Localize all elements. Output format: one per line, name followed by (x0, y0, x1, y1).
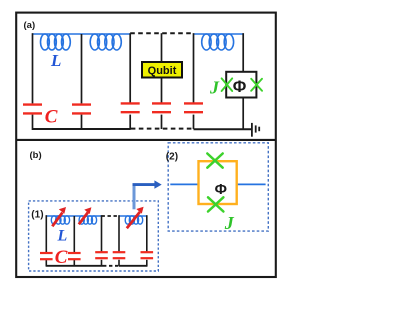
wire: mini top rail blue right (119, 215, 147, 217)
wire: vertical 3 (dashed-box left edge) (129, 33, 131, 129)
svg-text:(1): (1) (31, 210, 43, 221)
qubit dashed box bottom edge (131, 128, 194, 130)
SQUID loop (2) orange (199, 161, 237, 204)
dotted box (1) (29, 201, 159, 271)
outer frame (16, 13, 276, 277)
junction X bottom (2) (208, 197, 223, 211)
dashed box (2) (168, 143, 268, 231)
ground (252, 123, 259, 137)
mini capacitor 1 (40, 253, 53, 259)
wire: mini top rail blue left (46, 215, 101, 217)
wire: mini bottom rail right (119, 265, 147, 267)
mini inductor 2 (79, 216, 97, 224)
mini qubit dashed bottom (103, 265, 119, 267)
wire: vertical 5 (dashed-box right edge) (193, 33, 195, 129)
tuning arrow 2 (79, 207, 92, 224)
wire: mini vertical 2 (73, 216, 75, 266)
wire: SQUID branch vertical (242, 33, 244, 130)
wire: bottom rail right segment to ground (194, 128, 252, 130)
wire: mini vertical 4 (118, 215, 120, 266)
tuning arrow 3 (127, 207, 144, 229)
wire: vertical 2 (81, 34, 83, 129)
svg-text:(2): (2) (166, 152, 178, 163)
SQUID loop box U1 (226, 72, 256, 98)
mini qubit dashed top (102, 215, 120, 217)
svg-text:(a): (a) (24, 20, 36, 31)
inductor L2 (90, 34, 121, 50)
capacitor C5 (184, 103, 203, 112)
inductor L1 (41, 34, 71, 50)
svg-text:Qubit: Qubit (148, 65, 177, 77)
wire: mini vertical 1 (45, 215, 47, 266)
mini capacitor 4 (113, 252, 126, 258)
mini capacitor 3 (95, 252, 108, 258)
qubit dashed box top edge (130, 32, 193, 34)
junction X right (251, 79, 262, 91)
wire: bottom rail left segment (33, 128, 131, 130)
wire: qubit middle vertical (161, 33, 163, 129)
elbow arrow horizontal segment with head (133, 180, 162, 188)
svg-text:J: J (209, 78, 220, 98)
wire: top rail left blue segment (33, 33, 131, 35)
wire: left vertical (32, 33, 34, 130)
capacitor C1 (23, 105, 42, 114)
wire: mini vertical 5 (146, 215, 148, 266)
tuning arrow 1 (52, 207, 66, 226)
wire: mini bottom rail left (46, 265, 103, 267)
svg-text:J: J (224, 213, 235, 233)
wire: mini vertical 3 (101, 215, 103, 266)
capacitor C2 (72, 105, 91, 114)
svg-text:Φ: Φ (233, 78, 247, 96)
wire: top rail right blue segment (194, 33, 244, 35)
mini capacitor 2 (68, 253, 81, 259)
capacitor C4 (152, 103, 171, 112)
svg-text:C: C (45, 106, 58, 127)
capacitor C3 (121, 103, 140, 112)
Qubit label box (142, 62, 182, 78)
wire: lead left of SQUID (2) (170, 183, 198, 185)
elbow arrow vertical segment (133, 185, 136, 210)
svg-text:L: L (57, 228, 68, 245)
mini inductor 3 (125, 216, 142, 224)
svg-text:Φ: Φ (215, 181, 227, 198)
junction X top (2) (207, 154, 222, 168)
wire: lead right of SQUID (2) (237, 183, 266, 185)
svg-text:L: L (50, 51, 61, 70)
inductor L3 (202, 34, 234, 50)
junction X left (222, 78, 233, 91)
svg-text:(b): (b) (30, 150, 42, 161)
panel divider (16, 139, 276, 141)
mini capacitor 5 (141, 252, 154, 258)
mini inductor 1 (51, 216, 69, 224)
svg-text:C: C (55, 247, 68, 268)
